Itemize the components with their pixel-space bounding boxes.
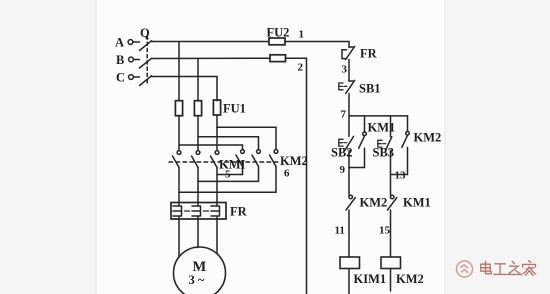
wire KM1 NC to coil KM2 (390, 210, 392, 257)
svg-text:FU2: FU2 (267, 26, 290, 40)
contactor KM2 main contact 3 (270, 150, 278, 167)
wire coil KM2 down (390, 269, 392, 292)
svg-text:2: 2 (298, 62, 304, 74)
terminal A (128, 40, 139, 45)
wire drop phase B to FU1 (197, 58, 199, 100)
terminal C (129, 75, 140, 80)
wire tap phase B to KM2 contact 2 (198, 137, 259, 150)
wire 2 FU2 down (286, 58, 307, 294)
wire tap phase A to KM2 contact 1 (179, 145, 243, 149)
wire SB3 to node 13 (390, 150, 392, 174)
coil KM1 (340, 257, 360, 269)
fuse FU1-1 (175, 101, 182, 116)
wire KM2 aux to node 13 join (391, 148, 408, 175)
wire FU1-1 to KM1 contact 1 (178, 116, 180, 151)
wire KM1-3 to KM2-1 bottoms (217, 167, 243, 175)
wire 1 FU2 to FR contact (285, 42, 349, 48)
KM1 KM2 linkage dashed (169, 161, 281, 163)
wire FR to motor 1 (178, 219, 180, 257)
svg-text:1: 1 (299, 29, 305, 41)
switch Q blade phase C (140, 76, 152, 86)
fuse FU2 upper (269, 38, 285, 45)
FR heater element 1 (173, 203, 182, 220)
fuse FU1-3 (213, 100, 220, 115)
wire SB1 to node 7 (348, 94, 350, 116)
svg-text:KM1: KM1 (403, 196, 431, 210)
svg-text:KIM1: KIM1 (354, 272, 387, 286)
motor M circle (174, 247, 226, 294)
thermal relay FR heater box (171, 203, 226, 220)
fuse FU1-2 (194, 101, 201, 116)
FR heater dashes (185, 210, 209, 212)
svg-text:KM2: KM2 (360, 196, 388, 210)
svg-text:KM2: KM2 (414, 131, 442, 145)
svg-text:C: C (116, 71, 125, 85)
wire KM2 NC to coil KM1 (348, 210, 350, 257)
start button SB3 (378, 137, 392, 150)
wire node 9 down (348, 168, 350, 196)
fuse FU2 lower (270, 55, 286, 62)
KM1 interlock NC contact (388, 195, 397, 210)
wire tap phase C to KM2 contact 3 (217, 127, 276, 149)
wire contacts to FR column 2 (197, 181, 199, 202)
svg-text:KM2: KM2 (280, 154, 308, 168)
terminal B (129, 57, 140, 62)
wire node 13 down (390, 175, 392, 196)
wire contacts to FR column 3 (216, 175, 218, 203)
svg-text:FR: FR (230, 205, 248, 219)
FR heater element 3 (211, 203, 220, 220)
wire phase B (152, 57, 271, 59)
watermark logo (457, 261, 473, 277)
wire KM1-2 to KM2-2 bottoms (198, 167, 259, 182)
switch Q linkage (146, 36, 148, 84)
node 7 bus wire (349, 115, 408, 117)
coil KM2 (381, 257, 401, 269)
wire FR to motor 3 (216, 219, 218, 254)
svg-text:SB3: SB3 (373, 146, 395, 160)
svg-text:5: 5 (225, 169, 231, 181)
svg-text:KM1: KM1 (368, 121, 396, 135)
KM2 interlock NC contact (346, 195, 355, 210)
svg-text:3: 3 (342, 64, 348, 76)
watermark text dian gong zhi jia (481, 261, 536, 276)
FR heater element 2 (192, 203, 201, 220)
wire FR to SB1 (348, 60, 350, 82)
contactor KM2 main contact 2 (252, 150, 260, 167)
wire contacts to FR column 1 (178, 192, 180, 202)
wire node7 to SB2 (348, 116, 350, 136)
wire SB2 to node 9 (348, 150, 350, 167)
svg-text:3 ~: 3 ~ (189, 273, 205, 287)
wire node7 to KM1 aux (364, 116, 366, 132)
svg-text:SB1: SB1 (359, 82, 381, 96)
start button SB2 (339, 136, 354, 150)
svg-text:FR: FR (360, 47, 378, 61)
wire drop phase A to FU1 (178, 42, 180, 101)
wire phase C (152, 76, 218, 78)
KM2 auxiliary NO contact (402, 132, 410, 148)
svg-text:11: 11 (335, 225, 345, 237)
svg-text:KM2: KM2 (396, 272, 424, 286)
svg-text:FU1: FU1 (223, 102, 246, 116)
svg-text:A: A (115, 36, 124, 50)
wire KM1 aux to node 9 join (349, 148, 365, 167)
switch Q blade phase B (140, 58, 152, 68)
svg-text:KMI: KMI (219, 158, 246, 172)
wire node7 to SB3 (390, 116, 392, 137)
wire phase A (152, 41, 270, 43)
svg-text:15: 15 (379, 225, 391, 237)
svg-text:13: 13 (395, 170, 407, 182)
wire KM1-1 to KM2-3 bottoms (179, 167, 276, 193)
wire FU1-2 to KM1 contact 2 (197, 116, 199, 151)
contactor KM1 main contact 3 (211, 151, 219, 168)
svg-text:6: 6 (284, 168, 290, 180)
contactor KM1 main contact 1 (173, 151, 181, 168)
svg-text:9: 9 (340, 164, 346, 176)
svg-text:B: B (116, 53, 124, 67)
KM1 auxiliary NO contact (359, 132, 367, 148)
FR NC contact (control) (342, 46, 355, 59)
wire FU1-3 to KM1 contact 3 (216, 115, 218, 150)
contactor KM2 main contact 1 (236, 150, 244, 167)
stop button SB1 (339, 80, 355, 93)
switch Q blade phase A (140, 41, 152, 51)
contactor KM1 main contact 2 (192, 151, 200, 168)
svg-text:Q: Q (140, 26, 150, 40)
wire node7 to KM2 aux (407, 116, 409, 132)
wire drop phase C to FU1 (216, 77, 218, 101)
svg-text:7: 7 (341, 109, 347, 121)
wire coil KM1 down (348, 269, 350, 294)
wire FR to motor 2 (197, 219, 199, 248)
svg-text:SB2: SB2 (331, 146, 353, 160)
